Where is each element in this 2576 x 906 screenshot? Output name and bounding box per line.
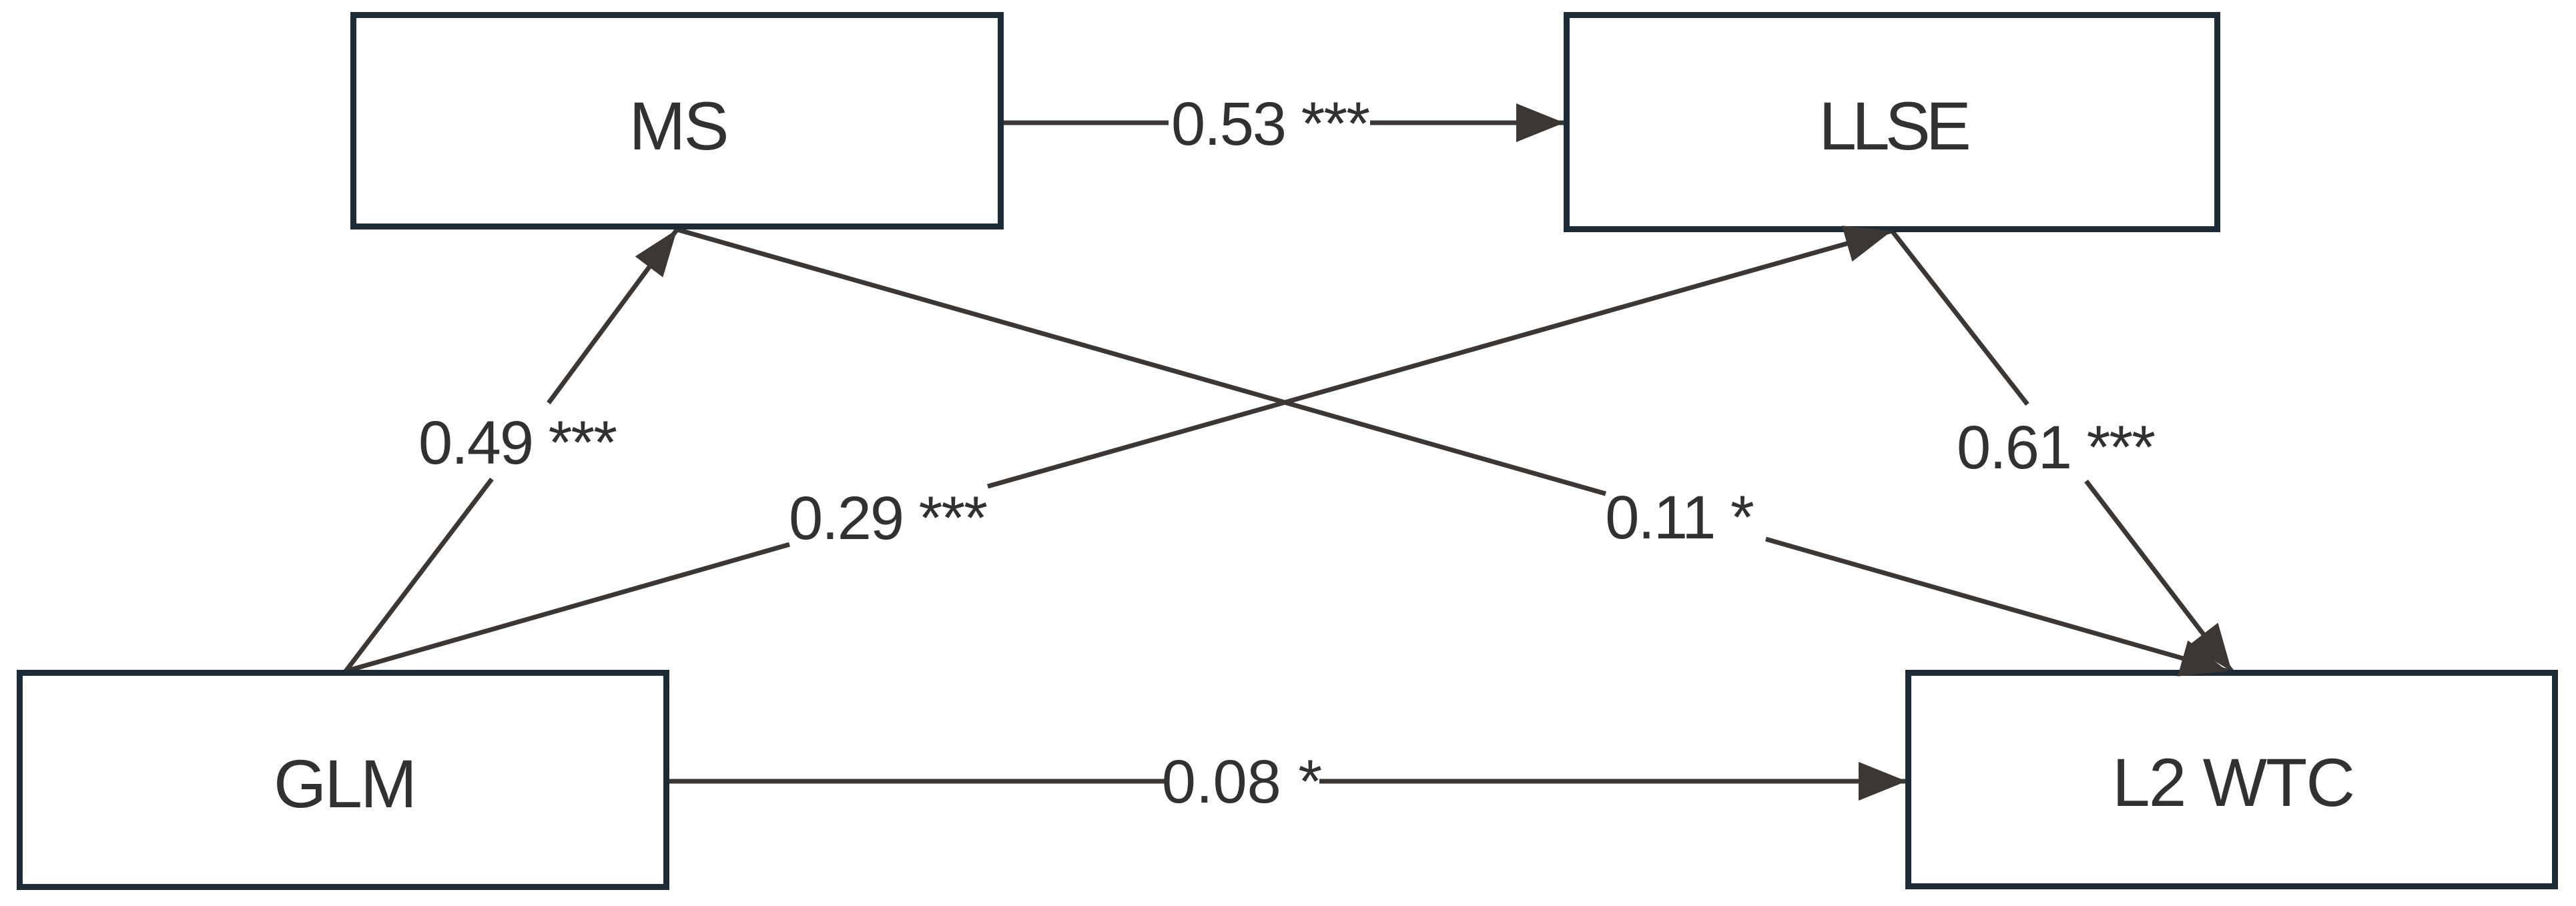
- node L2 WTC box: [1909, 673, 2555, 887]
- wire LLSE to L2 WTC (path 0.61) segment upper: [1892, 231, 2027, 404]
- node LLSE box: [1567, 15, 2218, 230]
- svg-text:0.29 ***: 0.29 ***: [789, 484, 987, 552]
- wire LLSE to L2 WTC (path 0.61) segment lower: [2086, 481, 2232, 671]
- wire GLM to MS (path 0.49) segment lower: [346, 479, 492, 671]
- wire MS to L2 WTC (path 0.11) segment lower: [1766, 539, 2228, 671]
- wire GLM to MS (path 0.49) segment upper: [549, 230, 677, 403]
- arrowhead into L2 WTC top from LLSE (0.61): [2188, 623, 2232, 672]
- svg-text:GLM: GLM: [274, 746, 415, 822]
- node GLM box: [20, 673, 667, 887]
- wire MS to LLSE (path 0.53) segment right: [1370, 121, 1564, 125]
- arrowhead into L2 WTC top from MS (0.11): [2178, 640, 2228, 676]
- wire MS to L2 WTC (path 0.11) segment upper: [677, 230, 1606, 494]
- svg-text:0.53 ***: 0.53 ***: [1171, 90, 1369, 158]
- svg-text:0.49 ***: 0.49 ***: [418, 409, 617, 477]
- svg-text:L2 WTC: L2 WTC: [2112, 745, 2354, 821]
- arrowhead into LLSE bottom (0.29): [1842, 225, 1892, 262]
- svg-text:0.11 *: 0.11 *: [1605, 484, 1754, 552]
- arrowhead into L2 WTC left (0.08): [1859, 762, 1907, 801]
- wire GLM to L2 WTC (path 0.08) segment right: [1319, 779, 1907, 784]
- svg-text:0.61 ***: 0.61 ***: [1957, 414, 2155, 482]
- wire MS to LLSE (path 0.53) segment left: [1004, 121, 1169, 125]
- wire GLM to LLSE (path 0.29) segment lower: [346, 544, 789, 671]
- node MS box: [354, 15, 1001, 227]
- wire GLM to L2 WTC (path 0.08) segment left: [669, 779, 1168, 784]
- arrowhead into LLSE left (0.53): [1516, 103, 1564, 142]
- svg-text:0.08 *: 0.08 *: [1162, 748, 1322, 816]
- wire GLM to LLSE (path 0.29) segment upper: [988, 231, 1892, 486]
- svg-text:LLSE: LLSE: [1819, 88, 1968, 164]
- svg-text:MS: MS: [629, 88, 727, 164]
- arrowhead into MS bottom (0.49): [635, 230, 677, 278]
